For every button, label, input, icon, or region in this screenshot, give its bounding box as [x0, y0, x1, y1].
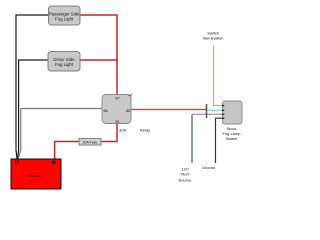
svg-text:Relay: Relay [140, 128, 150, 133]
svg-text:87: 87 [115, 96, 119, 100]
svg-text:30A: 30A [119, 128, 126, 133]
svg-text:Illumination: Illumination [203, 36, 223, 41]
svg-text:30: 30 [115, 120, 119, 124]
svg-text:Fog Light: Fog Light [55, 16, 74, 21]
svg-text:Battery: Battery [28, 173, 41, 178]
svg-text:Ground: Ground [202, 165, 215, 170]
svg-text:Switch: Switch [226, 136, 238, 141]
svg-text:"Run": "Run" [180, 172, 191, 177]
svg-text:86: 86 [103, 109, 107, 113]
svg-text:85: 85 [126, 109, 130, 113]
svg-text:Source: Source [179, 178, 192, 183]
svg-text:20A Fuse: 20A Fuse [83, 140, 98, 144]
svg-text:Fog Light: Fog Light [55, 62, 74, 67]
svg-text:12V: 12V [181, 166, 188, 171]
